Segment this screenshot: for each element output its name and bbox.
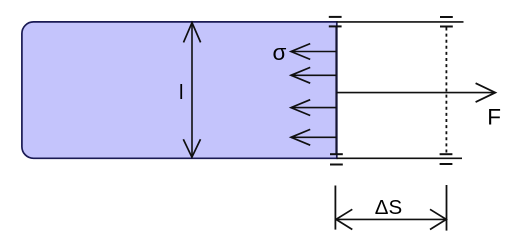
svg-text:ΔS: ΔS <box>375 196 402 219</box>
displacement extent line left <box>334 186 336 230</box>
shear stress arrow 3 shaft <box>291 107 336 109</box>
shear stress arrow 2 head <box>291 67 310 83</box>
tick above top line at displaced position <box>440 16 453 18</box>
shear stress arrow 4 shaft <box>291 136 336 138</box>
height arrow head up <box>184 23 201 43</box>
svg-text:l: l <box>179 82 183 104</box>
height arrow head down <box>183 139 200 157</box>
tick above bottom line at shear face <box>330 153 343 155</box>
tick above top line at shear face <box>329 16 342 18</box>
tick below bottom line at shear face <box>330 164 343 166</box>
force arrow F shaft <box>336 92 494 94</box>
displacement dimension arrow shaft <box>336 218 446 220</box>
shear stress arrow 4 head <box>291 129 310 145</box>
displacement arrow head right <box>430 209 446 229</box>
displacement arrow head left <box>336 209 352 229</box>
shear face line (right edge of block) <box>335 26 337 154</box>
svg-text:σ: σ <box>273 40 287 65</box>
displacement extent line right <box>446 185 448 231</box>
height dimension arrow l (shaft) <box>191 23 193 157</box>
shear stress arrow 1 head <box>291 44 310 60</box>
tick below top line at shear face <box>329 25 342 27</box>
svg-text:F: F <box>487 104 501 129</box>
top boundary line extension <box>337 21 464 23</box>
shear stress arrow 1 shaft <box>291 51 336 53</box>
tick below top line at displaced position <box>440 26 453 28</box>
force arrow F head <box>476 83 496 102</box>
tick below bottom line at displaced position <box>440 163 453 165</box>
dotted displaced-face line <box>445 28 447 153</box>
shear stress arrow 3 head <box>291 100 310 116</box>
tick above bottom line at displaced position <box>440 153 453 155</box>
bottom boundary line extension <box>337 157 463 159</box>
sheared block (purple body) <box>22 22 337 158</box>
shear stress arrow 2 shaft <box>291 74 336 76</box>
